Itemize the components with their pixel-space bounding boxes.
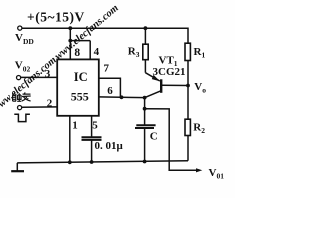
terminal V02 <box>17 76 21 80</box>
wire pin6 to junction <box>99 96 145 99</box>
node dot rail-pin8 <box>68 26 72 30</box>
wire pin7 stub <box>99 78 121 97</box>
wire pin8 drop from rail <box>69 28 71 59</box>
svg-text:7: 7 <box>104 63 110 75</box>
svg-text:R3: R3 <box>128 45 140 59</box>
svg-text:Vo: Vo <box>194 81 206 95</box>
svg-text:VDD: VDD <box>15 32 34 46</box>
svg-text:V02: V02 <box>15 60 31 74</box>
transistor Q1 emitter arrowhead <box>152 75 160 81</box>
capacitor C plates <box>136 124 155 126</box>
svg-text:555: 555 <box>71 90 89 104</box>
wire junction down to C branch <box>144 98 146 125</box>
node dot C-ground <box>143 160 147 164</box>
resistor R3 <box>143 44 148 60</box>
wire pin2 input <box>22 106 57 108</box>
svg-text:IC: IC <box>74 70 88 84</box>
watermark <box>0 3 121 115</box>
resistor R2 <box>185 119 190 135</box>
svg-text:C: C <box>150 130 158 142</box>
transistor Q1 base lead to Vo <box>162 84 188 86</box>
V01 arrowhead <box>196 168 202 172</box>
transistor Q1 collector diagonal <box>145 91 161 98</box>
node dot pin5-ground <box>90 160 94 164</box>
transistor Q1 emitter diagonal <box>145 73 159 81</box>
node dot collector junction <box>143 96 147 100</box>
wire pin1 down <box>69 116 71 162</box>
wire 0.01u cap to ground <box>91 140 93 162</box>
wire R3 bottom <box>144 60 146 73</box>
node dot pin7-pin6 <box>120 95 124 99</box>
svg-text:R2: R2 <box>193 122 205 136</box>
wire pin3 input <box>21 76 57 78</box>
wire pin4 drop <box>89 41 91 60</box>
node dot pin1-ground <box>68 160 72 164</box>
terminal trigger <box>18 106 22 110</box>
wire R2 bottom to ground line <box>187 136 189 161</box>
node dot V01 branch <box>143 107 147 111</box>
wire ground line <box>17 161 188 163</box>
wire R3 drop from rail <box>144 28 146 44</box>
label trigger 触发 <box>12 92 31 101</box>
wire pin5 down to 0.01u cap <box>91 116 93 137</box>
svg-text:5: 5 <box>92 120 98 132</box>
transistor Q1 bar <box>160 79 162 93</box>
wire top power rail <box>22 27 188 29</box>
wire pin8-pin4 tie bar <box>70 40 90 42</box>
wire C bottom to ground <box>144 128 146 161</box>
node dot pin8 tie <box>68 39 72 43</box>
wire R1 bottom to Vo node <box>187 61 189 86</box>
IC U1 555 box <box>57 59 99 115</box>
svg-text:3: 3 <box>45 68 51 80</box>
svg-text:8: 8 <box>74 47 80 59</box>
resistor R1 <box>185 43 190 60</box>
svg-text:3CG21: 3CG21 <box>153 66 186 78</box>
svg-text:1: 1 <box>72 120 78 132</box>
svg-text:6: 6 <box>107 85 113 97</box>
ground <box>16 163 18 171</box>
capacitor C2 0.01u plates <box>82 136 102 138</box>
svg-text:V01: V01 <box>209 167 225 181</box>
node dot rail-R3 <box>144 26 148 30</box>
pulse waveform symbol <box>14 114 30 121</box>
wire V01 branch <box>145 109 198 171</box>
svg-text:2: 2 <box>47 97 53 109</box>
svg-text:R1: R1 <box>194 46 206 60</box>
terminal VDD <box>18 26 22 30</box>
wire right rail down to R1 <box>187 28 189 44</box>
svg-text:+(5~15)V: +(5~15)V <box>27 10 85 25</box>
node dot Vo <box>186 84 190 88</box>
svg-text:0. 01μ: 0. 01μ <box>95 140 124 152</box>
wire Vo node to R2 <box>187 86 189 120</box>
svg-text:4: 4 <box>94 46 100 58</box>
